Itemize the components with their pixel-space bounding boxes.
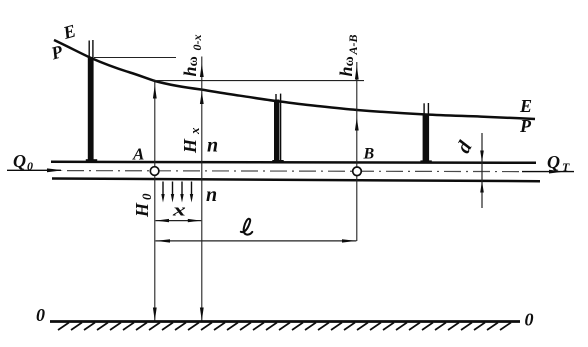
reference line from tube-1 water level (level 0) [94,57,176,59]
arrowhead up to curve at A [153,85,157,99]
svg-text:A: A [132,145,144,164]
svg-text:0: 0 [36,305,45,325]
label l (script ell) [241,219,253,235]
piezometer tube 3 (right, at x=426) [420,103,431,163]
arrowhead down to datum at A [153,308,157,322]
svg-text:h: h [336,66,356,76]
vertical measuring line at B (x=357) [356,62,358,241]
pipe top wall [51,162,536,163]
dimension x (A to section n-n) [156,220,202,222]
svg-text:x: x [172,201,186,220]
node A circle [150,167,159,176]
pipe bottom wall [52,179,540,182]
label x [172,201,186,220]
arrowhead up to curve at section x [200,92,204,105]
piezometric curve P (head line) [54,40,535,119]
arrowhead below curve at B [355,118,359,131]
distributed outflow arrows below pipe [163,182,192,197]
svg-text:0: 0 [27,159,33,173]
node B circle [353,167,362,176]
svg-text:n: n [207,135,218,157]
label h_wA-B (head loss A to B), rotated [336,34,360,76]
flow arrow QT (outlet) [522,171,574,173]
svg-text:T: T [562,160,570,174]
vertical measuring line at section n-n (x=202) [201,57,203,322]
pipe centerline (dash-dot axis) [67,171,520,172]
label Hx (piezometric head at x), rotated [180,127,202,154]
reference line from point A piezometric level [153,80,364,82]
svg-text:E: E [519,96,532,116]
label h_w0-x (head loss 0 to x), rotated [180,35,204,77]
svg-text:ω: ω [186,56,201,66]
svg-text:x: x [187,127,202,135]
svg-text:0: 0 [525,310,534,330]
piezometer tube 2 (middle, at x=278) [272,94,283,163]
svg-text:B: B [363,146,375,163]
svg-text:H: H [180,138,200,154]
datum line 0-0 [50,320,520,323]
piezometer tube 1 (left, at x=91) [86,40,97,162]
svg-text:H: H [132,202,152,218]
dimension d (pipe diameter) [481,133,483,208]
datum hatching [58,323,511,331]
svg-text:0: 0 [139,193,154,200]
svg-text:0-x: 0-x [190,35,204,51]
svg-text:Q: Q [547,152,560,172]
label H0 (head at A), rotated [132,193,154,218]
svg-text:Q: Q [13,151,26,171]
dimension l (A to B) [156,240,357,242]
arrowhead up to level-0 line [200,64,204,78]
svg-text:A-B: A-B [346,34,360,55]
svg-text:n: n [206,184,217,206]
vertical measuring line at A (x=155) [154,82,156,321]
svg-text:P: P [519,116,532,136]
svg-text:h: h [180,66,200,76]
arrowhead above A-level line at B [355,66,359,80]
flow arrow Q0 (inlet) [7,169,61,171]
arrowhead down to datum at section x [200,308,204,322]
svg-text:ω: ω [342,56,357,66]
